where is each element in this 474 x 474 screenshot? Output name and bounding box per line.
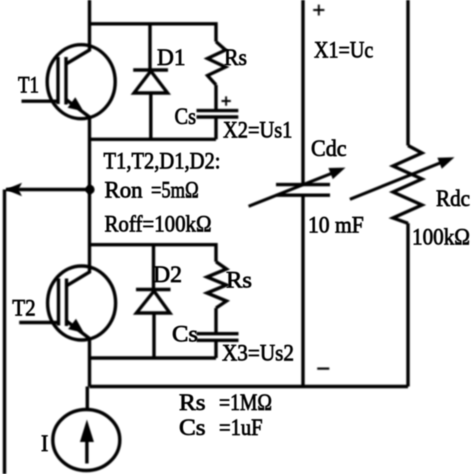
capacitor Cdc variable arrowhead xyxy=(328,168,345,180)
svg-text:100kΩ: 100kΩ xyxy=(412,225,470,250)
svg-text:Roff=100kΩ: Roff=100kΩ xyxy=(105,212,212,237)
wire: gate lead of T1 xyxy=(22,99,59,102)
transistor T1 channel bar xyxy=(64,57,67,105)
wire: D2 lower column xyxy=(152,313,155,358)
transistor T1 emitter arrowhead xyxy=(68,97,84,111)
transistor T2 emitter line xyxy=(67,321,90,339)
svg-text:Cs: Cs xyxy=(172,322,198,347)
diode D2 triangle xyxy=(136,291,170,313)
plus polarity mark (Cdc top) xyxy=(313,5,324,16)
current source I arrow shaft xyxy=(85,441,88,464)
diode D1 triangle xyxy=(134,71,168,93)
wire: D1 lower column xyxy=(149,93,152,139)
svg-text:T1: T1 xyxy=(18,73,39,98)
capacitor Cs (top snubber) plates xyxy=(197,111,239,117)
wire: emitter bus T1 to T2 collector xyxy=(67,116,90,286)
svg-text:I: I xyxy=(41,431,48,456)
current source I circle xyxy=(53,410,120,471)
wire: T2 emitter down to main bottom rail and source xyxy=(87,339,89,411)
current source I arrowhead xyxy=(80,420,94,443)
wire: bottom rail of T1 snubber block xyxy=(90,138,217,141)
svg-text:Rs: Rs xyxy=(179,390,206,415)
resistor Rdc variable arrow shaft xyxy=(350,162,442,199)
wire: main bottom rail xyxy=(90,385,409,388)
svg-text:D1: D1 xyxy=(157,45,186,70)
wire: Rs to Cs (top) xyxy=(214,85,217,111)
resistor Rdc variable arrowhead xyxy=(437,157,454,169)
svg-text:Cs: Cs xyxy=(179,415,206,440)
wire: Cdc bus lower xyxy=(301,197,304,387)
svg-text:Cs: Cs xyxy=(175,104,197,129)
wire: collector lead of T1 from top edge xyxy=(66,0,90,64)
transistor T2 channel bar xyxy=(65,279,68,327)
svg-text:T2: T2 xyxy=(12,295,35,320)
minus polarity mark (Cdc bottom) xyxy=(317,368,329,370)
transistor T1 emitter line xyxy=(66,100,90,118)
diode D1 cathode bar xyxy=(133,68,168,71)
svg-text:X3=Us2: X3=Us2 xyxy=(222,341,294,366)
wire: gate lead of T2 xyxy=(19,321,58,324)
wire: top rail of T2 snubber block xyxy=(90,245,217,262)
svg-text:Rs: Rs xyxy=(226,268,252,293)
plus polarity mark (top snubber Cs) xyxy=(222,96,231,105)
capacitor Cdc plates xyxy=(276,185,330,196)
resistor Rs (top snubber) zigzag xyxy=(208,42,226,85)
resistor Rdc zigzag xyxy=(393,146,422,224)
diode D2 cathode bar xyxy=(136,288,171,291)
svg-text:=5mΩ: =5mΩ xyxy=(151,178,199,203)
wire: D2 cathode column xyxy=(152,245,155,288)
wire: Rs to Cs (bottom) xyxy=(214,308,217,334)
junction node dot (T1 emitter / T2 collector midpoint) xyxy=(85,185,94,194)
transistor T1 gate bar xyxy=(56,57,59,104)
wire: Cs to bottom rail (top block) xyxy=(214,117,217,139)
svg-text:T1,T2,D1,D2:: T1,T2,D1,D2: xyxy=(104,149,221,174)
svg-text:10 mF: 10 mF xyxy=(308,213,364,238)
wire: Rdc bus lower xyxy=(406,223,409,386)
output arrowhead pointing left xyxy=(6,183,23,196)
resistor Rs (bottom snubber) zigzag xyxy=(207,262,227,308)
svg-text:X2=Us1: X2=Us1 xyxy=(223,118,292,143)
wire: output arrow line to left xyxy=(5,190,91,474)
svg-text:Cdc: Cdc xyxy=(311,136,347,161)
svg-text:Rdc: Rdc xyxy=(436,186,470,211)
transistor T2 (IGBT) body circle xyxy=(48,266,116,340)
capacitor Cdc variable arrow shaft xyxy=(249,172,334,206)
svg-text:D2: D2 xyxy=(153,262,182,287)
wire: top rail of T1 snubber block xyxy=(90,24,217,42)
svg-text:Rs: Rs xyxy=(224,45,247,70)
transistor T2 emitter arrowhead xyxy=(68,319,84,333)
wire: Cdc bus upper xyxy=(301,0,304,183)
capacitor Cs (bottom snubber) plates xyxy=(197,334,239,341)
wire: bottom rail of T2 snubber block xyxy=(90,356,217,359)
svg-text:=1MΩ: =1MΩ xyxy=(219,390,272,415)
svg-text:=1uF: =1uF xyxy=(219,415,263,440)
wire: Cs to bottom rail (bottom block) xyxy=(214,340,217,358)
wire: D1 anode column xyxy=(148,24,151,69)
wire: Rdc bus upper xyxy=(406,0,409,146)
transistor T2 gate bar xyxy=(57,279,60,326)
transistor T1 (IGBT) body circle xyxy=(47,45,115,119)
svg-text:Ron: Ron xyxy=(105,178,143,203)
svg-text:X1=Uc: X1=Uc xyxy=(314,38,373,63)
